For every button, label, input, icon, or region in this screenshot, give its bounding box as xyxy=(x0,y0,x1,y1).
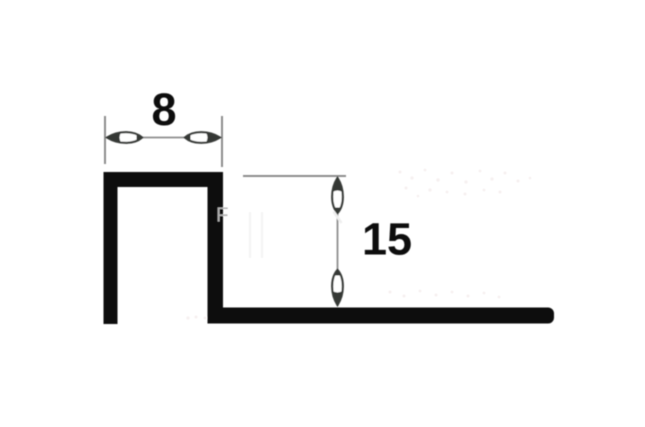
dimension line 15 xyxy=(337,178,339,305)
faint watermark speckle field upper right xyxy=(399,169,532,198)
profile left leg xyxy=(104,172,118,324)
arrowhead right (dim 8, points right) xyxy=(185,132,222,143)
arrowhead top (dim 15, points up) xyxy=(332,177,343,214)
watermark diagonal over dimension line (part of letter N) xyxy=(334,212,342,224)
arrowhead bottom (dim 15, points down) xyxy=(332,270,343,307)
extension line right (for dim 8) xyxy=(221,116,223,167)
svg-text:15: 15 xyxy=(362,214,412,265)
svg-text:8: 8 xyxy=(151,84,176,135)
profile top flange xyxy=(104,172,224,187)
faint watermark speckle field lower middle xyxy=(186,290,500,320)
dimension line 8 xyxy=(107,137,220,139)
profile bottom flange xyxy=(208,308,555,324)
svg-text:F: F xyxy=(216,204,229,227)
extension line top (for dim 15) xyxy=(243,175,346,177)
extension line left (for dim 8) xyxy=(104,116,106,164)
profile right leg xyxy=(208,172,224,323)
arrowhead left (dim 8, points left) xyxy=(106,132,143,143)
watermark faint strokes on white xyxy=(250,212,262,258)
